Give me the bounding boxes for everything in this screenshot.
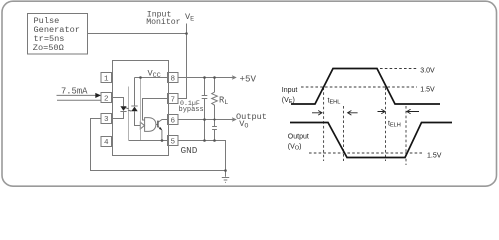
svg-text:GND: GND — [181, 145, 198, 156]
svg-text:(VE): (VE) — [282, 97, 295, 105]
svg-text:4: 4 — [104, 139, 109, 147]
svg-text:7.5mA: 7.5mA — [61, 87, 88, 97]
svg-text:8: 8 — [171, 75, 176, 83]
svg-text:VCC: VCC — [148, 69, 161, 81]
svg-text:1: 1 — [104, 75, 109, 83]
svg-text:7: 7 — [171, 96, 176, 104]
svg-text:(VO): (VO) — [288, 143, 302, 151]
svg-text:Monitor: Monitor — [146, 17, 180, 27]
svg-text:6: 6 — [171, 117, 176, 125]
svg-text:tEHL: tEHL — [328, 98, 341, 106]
svg-text:3: 3 — [104, 116, 109, 124]
svg-text:1.5V: 1.5V — [427, 152, 442, 159]
svg-text:tELH: tELH — [388, 120, 401, 128]
svg-text:2: 2 — [104, 95, 109, 103]
svg-text:Input: Input — [282, 87, 298, 94]
svg-text:bypass: bypass — [179, 106, 204, 114]
svg-text:VE: VE — [185, 12, 194, 24]
svg-text:1.5V: 1.5V — [420, 86, 435, 93]
svg-text:Output: Output — [288, 133, 309, 140]
svg-text:+5V: +5V — [240, 73, 257, 84]
svg-text:RL: RL — [219, 95, 228, 107]
svg-text:5: 5 — [171, 138, 176, 146]
svg-text:Zo=50Ω: Zo=50Ω — [33, 43, 64, 53]
svg-text:3.0V: 3.0V — [420, 67, 435, 74]
